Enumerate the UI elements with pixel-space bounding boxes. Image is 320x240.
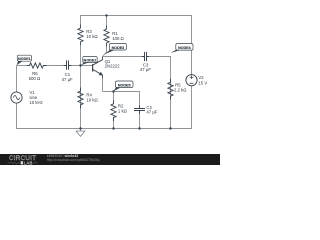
svg-text:10 kHz: 10 kHz	[29, 100, 42, 105]
resistor R2 1k	[111, 100, 116, 121]
svg-text:NODE4: NODE4	[178, 46, 191, 50]
junction dot base node	[79, 64, 81, 66]
wire: NODE1 corner to R6	[17, 65, 28, 67]
wire: V1 bottom to bottom rail, bottom rail to V2 bottom	[17, 86, 192, 129]
resistor R5 2.2k	[168, 79, 173, 100]
wire: R2 branch	[113, 92, 115, 129]
svg-text:http://circuitlab.com/cpb83478: http://circuitlab.com/cpb83478b33q	[47, 158, 100, 162]
wire: emitter wire right to C2 branch corner	[103, 92, 140, 109]
junction dot top rail R1	[105, 14, 107, 16]
junction dot bottom rail R4 ground	[79, 127, 81, 129]
svg-text:10 kΩ: 10 kΩ	[86, 97, 98, 102]
svg-text:15 V: 15 V	[198, 81, 207, 86]
wire: collector node to C3 left plate	[103, 56, 145, 58]
wire: ground stem	[80, 129, 82, 132]
resistor R4 10k	[78, 88, 83, 109]
node label NODE3	[105, 44, 127, 55]
svg-text:NODE2: NODE2	[84, 58, 97, 62]
wire: R1 top lead from rail	[106, 16, 108, 27]
watermark logo LAB row	[8, 162, 20, 164]
wire: top rail from R3 branch to V2 branch	[81, 16, 192, 75]
transistor Q1 2N2222	[93, 57, 121, 92]
wire: R1 hidden jog to collector corner	[103, 46, 107, 56]
svg-text:47 µF: 47 µF	[146, 110, 157, 115]
capacitor C2 47uF	[139, 105, 141, 113]
node label NODE5	[113, 81, 133, 91]
resistor R3 10k	[78, 25, 83, 46]
svg-text:47 µF: 47 µF	[62, 77, 73, 82]
wire: R3 lower lead to base junction	[80, 45, 82, 65]
junction dot bottom rail R2	[112, 127, 114, 129]
voltage source V1 sine 10kHz	[11, 92, 22, 103]
wire: C1 right plate to Q1 base	[69, 65, 93, 67]
wire: C3 right plate to NODE4 corner and down R5 branch to bottom rail	[147, 57, 171, 129]
svg-text:NODE5: NODE5	[118, 83, 131, 87]
capacitor C3 47uF	[142, 56, 149, 58]
resistor R1 100	[104, 26, 109, 47]
svg-text:NODE3: NODE3	[112, 46, 125, 50]
node label NODE4	[171, 44, 193, 53]
svg-text:100 Ω: 100 Ω	[112, 36, 124, 41]
junction dot bottom rail C2	[138, 127, 140, 129]
wire: NODE1 corner down to V1 top	[16, 66, 18, 92]
capacitor C1 47uF	[64, 65, 71, 67]
voltage source V2 15V DC	[186, 75, 197, 86]
svg-text:1 kΩ: 1 kΩ	[118, 109, 128, 114]
svg-text:500 Ω: 500 Ω	[29, 76, 41, 81]
node label NODE1	[17, 55, 32, 65]
wire: C2 bottom plate to bottom rail	[139, 111, 141, 129]
junction dot emitter node R2	[112, 90, 114, 92]
watermark bar	[0, 154, 220, 165]
svg-text:NODE1: NODE1	[18, 57, 31, 61]
svg-text:LAB: LAB	[24, 160, 33, 165]
svg-text:V2: V2	[198, 75, 204, 80]
wire: R4 branch from base junction to bottom rail	[80, 66, 82, 129]
svg-text:2.2 kΩ: 2.2 kΩ	[174, 87, 187, 92]
svg-text:10 kΩ: 10 kΩ	[86, 34, 98, 39]
svg-text:2N2222: 2N2222	[105, 64, 121, 69]
wire: R6 to C1 left plate	[47, 65, 67, 67]
node label NODE2	[81, 57, 97, 66]
resistor R6 500	[27, 63, 47, 68]
svg-text:47 µF: 47 µF	[140, 67, 151, 72]
ground symbol	[76, 131, 85, 136]
junction dot bottom rail R5	[169, 127, 171, 129]
